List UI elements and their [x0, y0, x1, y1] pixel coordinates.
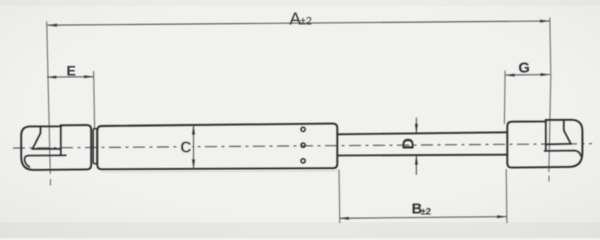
cylinder end hole bottom [301, 159, 305, 163]
left fitting slot hook profile [33, 126, 61, 148]
dimension B right extension line [505, 169, 508, 223]
dimension A right arrowhead [540, 20, 550, 23]
cylinder end hole middle [301, 143, 305, 147]
piston rod bottom line [337, 154, 507, 157]
cylinder tube body [97, 124, 337, 170]
dimension D upper arrowhead [415, 124, 418, 133]
dimension E right extension line [94, 71, 95, 129]
dimension C top arrowhead [192, 125, 195, 135]
dimension D lower arrowhead [415, 155, 418, 165]
left fitting inner body edge [60, 125, 62, 155]
piston rod top line [337, 132, 507, 134]
right fitting slot hook profile [546, 120, 571, 145]
right fitting lower slot line with wrap-around corner [544, 151, 581, 157]
dimension G line [505, 74, 550, 77]
dimension B right arrowhead [497, 215, 507, 218]
dimension C line [193, 125, 195, 169]
right eyelet fitting outer silhouette [507, 120, 582, 168]
left eye centerline lower dash [49, 179, 51, 186]
dimension D upper line [415, 118, 417, 133]
dimension G left extension line [503, 71, 506, 125]
dimension B line [339, 217, 506, 219]
right eye centerline lower dash [548, 176, 550, 182]
dimension B left arrowhead [339, 217, 349, 220]
dimension A left arrowhead [48, 24, 58, 27]
dimension G left arrowhead [505, 74, 514, 77]
left eye vertical centerline and A/E extension line [47, 22, 51, 175]
dimension D lower line [415, 156, 417, 175]
scan ghost line under cylinder [101, 171, 340, 172]
dimension E right arrowhead [84, 75, 94, 78]
dimension C bottom arrowhead [192, 159, 195, 169]
cylinder end hole top [301, 127, 305, 131]
dimension E left arrowhead [47, 76, 57, 79]
left fitting lower slot line with wrap-around corner [25, 155, 67, 167]
main axis centerline [13, 144, 592, 148]
right fitting inner body edge [545, 121, 547, 150]
dimension E line [47, 76, 94, 78]
dimension G right arrowhead [541, 73, 551, 76]
dimension B left extension line [338, 170, 341, 224]
weld neck between left fitting and cylinder [93, 129, 97, 164]
left eyelet fitting outer silhouette [21, 125, 91, 170]
right eye vertical centerline and A/G extension line [549, 18, 551, 172]
dimension A line [48, 21, 550, 25]
halo behind C label [179, 140, 192, 153]
